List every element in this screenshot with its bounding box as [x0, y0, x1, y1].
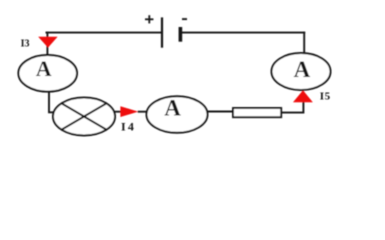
lamp L1 cross stroke 2 — [61, 103, 107, 130]
wire arrow I4 to ammeter A2 — [138, 111, 148, 113]
wire ammeter A1 to lamp vertical — [49, 91, 55, 112]
lamp L1 cross stroke 1 — [61, 103, 107, 130]
svg-text:A: A — [294, 57, 311, 82]
svg-text:I3: I3 — [21, 38, 30, 49]
ammeter A2 bottom — [147, 96, 208, 133]
current arrow I5 — [293, 90, 313, 102]
wire right vertical drop — [303, 32, 305, 54]
current arrow I4 — [120, 106, 138, 117]
current arrow I3 — [38, 37, 57, 48]
label + plus sign — [145, 15, 153, 23]
svg-text:A: A — [164, 95, 181, 120]
lamp L1 circle — [53, 98, 115, 136]
label - minus sign — [182, 18, 187, 20]
battery positive plate — [161, 17, 163, 47]
wire ammeter A2 to resistor — [207, 111, 234, 113]
ammeter A1 left — [18, 55, 77, 92]
wire resistor to right branch corner — [281, 101, 303, 113]
svg-text:I5: I5 — [320, 91, 331, 103]
wire top-right horizontal — [180, 32, 305, 34]
ammeter A3 right — [272, 53, 331, 90]
resistor R1 — [233, 108, 281, 117]
svg-text:A: A — [36, 56, 52, 81]
battery negative plate — [179, 27, 183, 42]
wire top-left horizontal — [46, 32, 163, 34]
wire left vertical drop — [46, 32, 48, 56]
wire lamp to arrow I4 — [113, 111, 121, 113]
svg-text:I4: I4 — [121, 119, 136, 133]
